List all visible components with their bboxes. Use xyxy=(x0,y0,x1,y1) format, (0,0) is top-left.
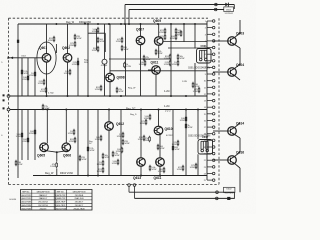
svg-text:Reg_W: Reg_W xyxy=(128,88,136,90)
svg-text:1/2W: 1/2W xyxy=(158,53,163,55)
svg-text:Reg_DC: Reg_DC xyxy=(126,108,136,111)
svg-text:Q604: Q604 xyxy=(236,63,244,67)
svg-text:1/2W: 1/2W xyxy=(68,133,73,135)
svg-text:1/2W: 1/2W xyxy=(16,136,21,138)
svg-text:1/2W: 1/2W xyxy=(164,64,169,66)
svg-text:REF NO.: REF NO. xyxy=(57,191,65,193)
svg-text:1-5W: 1-5W xyxy=(182,81,187,83)
svg-text:1/2W: 1/2W xyxy=(105,157,110,159)
svg-text:1/2W: 1/2W xyxy=(64,73,69,75)
svg-text:1/2W: 1/2W xyxy=(77,38,82,40)
svg-text:DESCRIPTION: DESCRIPTION xyxy=(73,191,86,193)
svg-text:Q603-TR2B: Q603-TR2B xyxy=(21,202,32,204)
svg-text:1/2W: 1/2W xyxy=(124,49,129,51)
svg-text:1/2W: 1/2W xyxy=(97,171,102,173)
svg-text:1/2W: 1/2W xyxy=(158,171,163,173)
svg-text:15: 15 xyxy=(204,114,206,116)
svg-text:11: 11 xyxy=(204,87,206,89)
svg-text:Q603: Q603 xyxy=(236,32,244,36)
svg-text:2SC487-Y: 2SC487-Y xyxy=(75,202,84,204)
svg-text:D601: D601 xyxy=(226,10,232,12)
svg-text:2: 2 xyxy=(205,28,206,30)
svg-text:9: 9 xyxy=(205,74,206,76)
svg-text:6: 6 xyxy=(205,54,206,56)
svg-text:Q601: Q601 xyxy=(39,46,47,50)
svg-text:1/2W: 1/2W xyxy=(18,164,23,166)
svg-text:1/2W: 1/2W xyxy=(22,141,27,143)
svg-text:1/2W: 1/2W xyxy=(50,166,55,168)
svg-text:1/2W: 1/2W xyxy=(160,148,165,150)
svg-text:Q601-TR2F: Q601-TR2F xyxy=(21,195,32,197)
svg-text:1/2W: 1/2W xyxy=(125,143,130,145)
svg-text:1/2W: 1/2W xyxy=(115,155,120,157)
svg-text:10: 10 xyxy=(204,81,206,83)
svg-text:1/2W: 1/2W xyxy=(138,139,143,141)
svg-text:1/2W: 1/2W xyxy=(177,169,182,171)
svg-text:Q616: Q616 xyxy=(236,151,244,155)
svg-text:1-2Ω: 1-2Ω xyxy=(164,105,170,108)
svg-text:Q611R-TR2B: Q611R-TR2B xyxy=(55,208,67,210)
svg-text:12: 12 xyxy=(204,94,206,96)
svg-text:Q610-TR2F: Q610-TR2F xyxy=(56,205,67,207)
svg-text:1/2W: 1/2W xyxy=(117,136,122,138)
svg-text:1-2Ω: 1-2Ω xyxy=(164,90,170,93)
svg-text:1/2W: 1/2W xyxy=(48,40,53,42)
svg-text:H-5090: H-5090 xyxy=(10,199,17,201)
svg-text:1/2W: 1/2W xyxy=(112,163,117,165)
svg-text:16: 16 xyxy=(204,120,206,122)
svg-text:C601:SDGC04E750V: C601:SDGC04E750V xyxy=(188,68,211,70)
svg-text:14: 14 xyxy=(204,107,206,109)
svg-text:1/2W: 1/2W xyxy=(172,64,177,66)
svg-text:Q605-TR2B: Q605-TR2B xyxy=(21,205,32,207)
svg-text:Q608: Q608 xyxy=(117,76,125,80)
svg-text:1/2W: 1/2W xyxy=(95,139,100,141)
svg-text:1/2W: 1/2W xyxy=(82,159,87,161)
svg-text:2SA562-Y: 2SA562-Y xyxy=(39,197,48,200)
svg-text:1/2W: 1/2W xyxy=(29,75,34,77)
svg-text:D602: D602 xyxy=(227,189,233,191)
svg-text:2SA562-Y: 2SA562-Y xyxy=(39,194,48,197)
svg-text:1/2W: 1/2W xyxy=(146,59,151,61)
svg-text:2SC467-Y: 2SC467-Y xyxy=(75,205,84,207)
svg-text:1/2W: 1/2W xyxy=(188,127,193,129)
svg-text:1/2W: 1/2W xyxy=(164,58,169,60)
svg-text:1/2W: 1/2W xyxy=(97,164,102,166)
svg-text:D604 VC60: D604 VC60 xyxy=(60,172,74,175)
svg-text:4700μF: 4700μF xyxy=(101,65,108,67)
svg-text:D604 V060: D604 V060 xyxy=(79,21,92,24)
svg-text:2SC1327-B: 2SC1327-B xyxy=(38,202,48,204)
svg-text:1/2W: 1/2W xyxy=(175,149,180,151)
svg-text:1/2W: 1/2W xyxy=(190,167,195,169)
svg-text:1/2W: 1/2W xyxy=(40,91,45,93)
svg-text:22: 22 xyxy=(204,160,206,162)
svg-text:1/2W: 1/2W xyxy=(92,50,97,52)
svg-text:2SC45-TR2B: 2SC45-TR2B xyxy=(74,208,86,210)
svg-text:1/2W: 1/2W xyxy=(172,144,177,146)
svg-text:1/2W: 1/2W xyxy=(180,58,185,60)
svg-text:1/2W: 1/2W xyxy=(159,38,164,40)
svg-text:1/2W: 1/2W xyxy=(72,64,77,66)
svg-text:1/2W: 1/2W xyxy=(29,133,34,135)
svg-text:1/2W: 1/2W xyxy=(95,89,100,91)
svg-text:24: 24 xyxy=(204,174,206,176)
svg-text:Q608R-TR2: Q608R-TR2 xyxy=(56,198,66,200)
svg-text:2SA1-76-B: 2SA1-76-B xyxy=(74,197,84,200)
svg-text:Q612: Q612 xyxy=(116,122,124,126)
svg-text:Reg_D: Reg_D xyxy=(130,114,137,116)
svg-text:25: 25 xyxy=(204,180,206,182)
svg-text:Reg_W: Reg_W xyxy=(45,172,54,175)
svg-text:1: 1 xyxy=(205,21,206,23)
svg-text:1/2W: 1/2W xyxy=(126,66,131,68)
svg-text:1/2W: 1/2W xyxy=(180,120,185,122)
svg-text:REF NO.: REF NO. xyxy=(22,191,30,193)
svg-text:Reg_W: Reg_W xyxy=(66,21,75,24)
svg-text:2SC373: 2SC373 xyxy=(40,208,47,210)
svg-text:1/2W: 1/2W xyxy=(139,64,144,66)
svg-text:Q610: Q610 xyxy=(165,127,173,131)
svg-text:5C295-R: 5C295-R xyxy=(225,13,234,15)
svg-text:4.7kΩ: 4.7kΩ xyxy=(48,93,54,95)
svg-text:Q613: Q613 xyxy=(133,176,141,180)
svg-text:Q614: Q614 xyxy=(236,122,244,126)
svg-text:1/2W: 1/2W xyxy=(143,140,148,142)
svg-text:1/2W: 1/2W xyxy=(152,169,157,171)
svg-text:Q611: Q611 xyxy=(154,176,162,180)
svg-text:2SC1327-B: 2SC1327-B xyxy=(38,205,48,207)
svg-text:1/2W: 1/2W xyxy=(144,118,149,120)
svg-text:1/2W: 1/2W xyxy=(22,79,27,81)
svg-text:1/2W: 1/2W xyxy=(119,91,124,93)
svg-text:1/2W: 1/2W xyxy=(69,141,74,143)
svg-text:1/2W: 1/2W xyxy=(159,32,164,34)
svg-text:Q606: Q606 xyxy=(63,154,71,158)
svg-text:1/2W: 1/2W xyxy=(92,31,97,33)
svg-text:DESCRIPTION: DESCRIPTION xyxy=(37,191,50,193)
svg-text:1/2W: 1/2W xyxy=(193,91,198,93)
svg-text:Q609-TR2F: Q609-TR2F xyxy=(56,202,67,204)
svg-text:1/2W: 1/2W xyxy=(116,41,121,43)
svg-text:Q611: Q611 xyxy=(151,61,159,65)
svg-text:1/2W: 1/2W xyxy=(38,83,43,85)
svg-text:3: 3 xyxy=(205,34,206,36)
svg-text:C602:SDGC04E750N: C602:SDGC04E750N xyxy=(188,135,211,137)
svg-text:1/2W: 1/2W xyxy=(90,150,95,152)
svg-text:Q607: Q607 xyxy=(136,28,144,32)
svg-text:2SC458-B: 2SC458-B xyxy=(75,195,84,197)
svg-text:Q605: Q605 xyxy=(37,154,45,158)
svg-text:1/2W: 1/2W xyxy=(140,123,145,125)
svg-text:C601: C601 xyxy=(201,45,208,48)
svg-text:Q606-TR2B: Q606-TR2B xyxy=(21,208,32,210)
svg-text:17: 17 xyxy=(204,127,206,129)
svg-text:Q602-TR2F: Q602-TR2F xyxy=(21,198,32,200)
svg-text:23: 23 xyxy=(204,167,206,169)
svg-text:4C232: 4C232 xyxy=(166,135,173,137)
svg-text:1/2W: 1/2W xyxy=(175,35,180,37)
svg-text:1/2W: 1/2W xyxy=(24,73,29,75)
svg-text:13: 13 xyxy=(204,101,206,103)
svg-text:1/2W: 1/2W xyxy=(170,38,175,40)
svg-text:Q609: Q609 xyxy=(153,19,161,23)
svg-text:1/2W: 1/2W xyxy=(100,41,105,43)
svg-text:1-2-3: 1-2-3 xyxy=(165,111,171,113)
svg-text:5C295(R): 5C295(R) xyxy=(225,193,234,195)
svg-text:Q607R-TR2: Q607R-TR2 xyxy=(56,195,66,197)
svg-text:1/2W: 1/2W xyxy=(69,45,74,47)
